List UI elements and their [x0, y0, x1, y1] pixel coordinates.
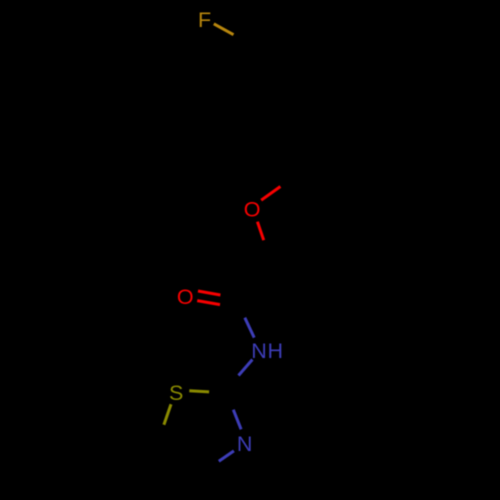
bond C2=N3 (blue half line)	[233, 410, 241, 430]
svg-text:O: O	[244, 198, 261, 222]
svg-text:N: N	[251, 339, 267, 363]
svg-text:S: S	[169, 381, 183, 405]
svg-text:F: F	[198, 8, 211, 32]
bond C=O2 lower line (red half)	[197, 301, 220, 305]
bond O1-CH2 (ether O to methylene, red half)	[257, 222, 263, 241]
svg-text:H: H	[268, 339, 284, 363]
bond S1-C5 (yellow half)	[164, 404, 171, 424]
svg-text:N: N	[237, 432, 253, 456]
bond C=O2 upper line (red half)	[198, 291, 220, 295]
bond N-C2 thiazole (blue half from amide N)	[239, 360, 253, 376]
bond F-C6 (fluorine half-bond)	[214, 24, 234, 35]
svg-text:O: O	[177, 285, 194, 309]
bond C(=O)-N (blue half to amide N)	[245, 318, 254, 338]
bond S1-C2 (yellow half)	[189, 391, 209, 392]
bond N3-C4 (blue half)	[219, 451, 234, 461]
bond O1-C1 (ether O to phenyl, red half)	[261, 187, 280, 201]
